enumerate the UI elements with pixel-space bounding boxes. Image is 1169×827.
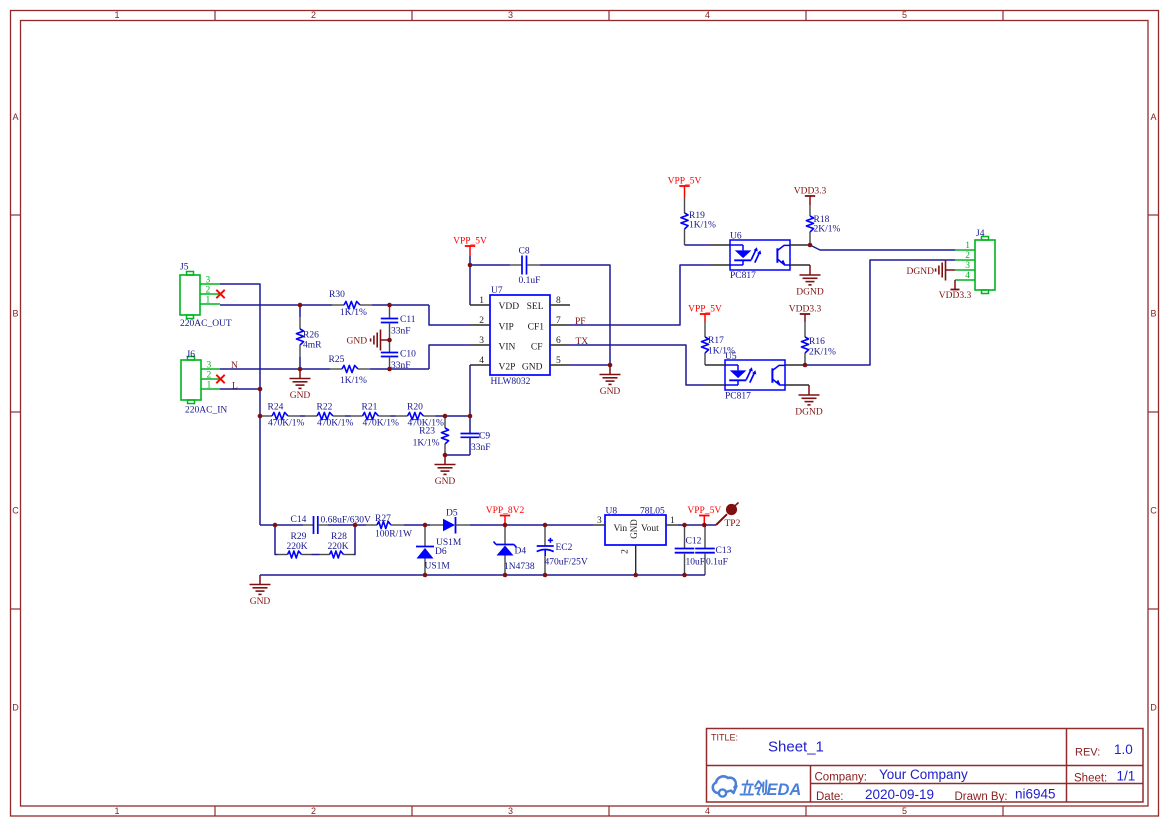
svg-text:EDA: EDA	[767, 781, 802, 799]
svg-text:VDD3.3: VDD3.3	[794, 187, 827, 197]
svg-text:1K/1%: 1K/1%	[340, 376, 367, 386]
svg-text:4: 4	[705, 10, 710, 20]
svg-text:1: 1	[670, 516, 675, 526]
svg-text:R19: R19	[689, 211, 705, 221]
svg-text:1K/1%: 1K/1%	[689, 221, 716, 231]
svg-text:1K/1%: 1K/1%	[340, 308, 367, 318]
svg-text:33nF: 33nF	[471, 443, 491, 453]
svg-text:1/1: 1/1	[1117, 768, 1136, 783]
svg-text:470K/1%: 470K/1%	[317, 419, 354, 429]
svg-text:U8: U8	[606, 507, 618, 517]
svg-text:VDD3.3: VDD3.3	[939, 291, 972, 301]
svg-text:D5: D5	[446, 509, 458, 519]
svg-text:1: 1	[206, 296, 211, 306]
svg-text:GND: GND	[629, 519, 639, 539]
svg-text:R27: R27	[375, 514, 391, 524]
svg-text:VIN: VIN	[499, 343, 516, 353]
svg-text:10uF: 10uF	[686, 558, 706, 568]
svg-text:3: 3	[597, 516, 602, 526]
svg-text:2: 2	[479, 316, 484, 326]
svg-text:1.0: 1.0	[1114, 742, 1133, 757]
svg-text:Company:: Company:	[815, 772, 867, 784]
svg-text:3: 3	[207, 361, 212, 371]
svg-text:J6: J6	[187, 350, 196, 360]
svg-text:PC817: PC817	[730, 271, 756, 281]
svg-text:U7: U7	[491, 286, 503, 296]
svg-text:D4: D4	[515, 547, 527, 557]
svg-text:1: 1	[965, 241, 970, 251]
svg-text:US1M: US1M	[425, 562, 451, 572]
svg-text:220AC_IN: 220AC_IN	[185, 406, 227, 416]
svg-text:VPP_8V2: VPP_8V2	[486, 506, 525, 516]
svg-text:J4: J4	[976, 229, 985, 239]
svg-text:R30: R30	[329, 290, 345, 300]
svg-text:D: D	[1150, 703, 1157, 713]
svg-text:A: A	[1150, 112, 1156, 122]
svg-text:1: 1	[114, 10, 119, 20]
svg-text:2020-09-19: 2020-09-19	[865, 787, 934, 802]
svg-text:C: C	[12, 506, 19, 516]
svg-text:4: 4	[479, 356, 484, 366]
svg-text:Sheet:: Sheet:	[1074, 773, 1107, 785]
svg-text:6: 6	[556, 336, 561, 346]
svg-text:1: 1	[207, 381, 212, 391]
svg-text:HLW8032: HLW8032	[491, 377, 531, 387]
svg-text:Drawn By:: Drawn By:	[955, 791, 1008, 803]
svg-text:5: 5	[902, 806, 907, 816]
svg-text:TITLE:: TITLE:	[711, 733, 738, 743]
svg-text:Date:: Date:	[816, 791, 844, 803]
svg-text:R21: R21	[362, 403, 378, 413]
svg-text:R22: R22	[317, 403, 333, 413]
svg-text:GND: GND	[250, 597, 271, 607]
svg-text:VPP_5V: VPP_5V	[687, 506, 721, 516]
svg-text:33nF: 33nF	[391, 361, 411, 371]
svg-text:2: 2	[206, 286, 211, 296]
svg-text:R28: R28	[331, 532, 347, 542]
svg-text:0.1uF: 0.1uF	[519, 276, 541, 286]
svg-text:3: 3	[508, 10, 513, 20]
svg-text:N: N	[231, 361, 238, 371]
svg-text:Your Company: Your Company	[879, 767, 968, 782]
svg-text:EC2: EC2	[556, 543, 573, 553]
svg-text:GND: GND	[600, 387, 621, 397]
svg-text:PC817: PC817	[725, 391, 751, 401]
svg-text:VPP_5V: VPP_5V	[453, 237, 487, 247]
svg-text:PF: PF	[575, 317, 586, 327]
svg-text:VDD3.3: VDD3.3	[789, 305, 822, 315]
svg-text:DGND: DGND	[795, 408, 823, 418]
svg-text:1: 1	[479, 296, 484, 306]
svg-text:2: 2	[207, 371, 212, 381]
svg-text:3: 3	[965, 261, 970, 271]
svg-text:0.68uF/630V: 0.68uF/630V	[321, 516, 372, 526]
svg-text:220K: 220K	[287, 542, 308, 552]
svg-text:REV:: REV:	[1075, 747, 1100, 759]
svg-text:SEL: SEL	[527, 302, 544, 312]
svg-text:8: 8	[556, 296, 561, 306]
svg-text:CF1: CF1	[528, 323, 545, 333]
svg-text:C11: C11	[400, 315, 416, 325]
svg-text:R29: R29	[291, 532, 307, 542]
svg-text:3: 3	[206, 276, 211, 286]
svg-text:4: 4	[965, 271, 970, 281]
svg-text:Vout: Vout	[641, 524, 659, 534]
svg-text:1: 1	[114, 806, 119, 816]
svg-text:DGND: DGND	[907, 267, 935, 277]
svg-text:C: C	[1150, 506, 1157, 516]
svg-text:ni6945: ni6945	[1015, 786, 1056, 801]
svg-text:R16: R16	[809, 337, 825, 347]
svg-text:R18: R18	[814, 215, 830, 225]
svg-text:B: B	[12, 309, 18, 319]
svg-text:5: 5	[556, 356, 561, 366]
svg-text:GND: GND	[522, 363, 543, 373]
svg-text:GND: GND	[435, 477, 456, 487]
svg-text:U6: U6	[730, 232, 742, 242]
svg-text:VPP_5V: VPP_5V	[668, 177, 702, 187]
svg-text:VDD: VDD	[499, 302, 520, 312]
svg-text:VIP: VIP	[499, 323, 514, 333]
svg-text:3: 3	[479, 336, 484, 346]
svg-text:TX: TX	[576, 337, 589, 347]
svg-text:J5: J5	[180, 263, 189, 273]
svg-text:220AC_OUT: 220AC_OUT	[180, 319, 232, 329]
svg-text:1K/1%: 1K/1%	[708, 347, 735, 357]
svg-text:7: 7	[556, 316, 561, 326]
svg-text:2K/1%: 2K/1%	[809, 348, 836, 358]
svg-text:R23: R23	[419, 427, 435, 437]
svg-text:2: 2	[621, 549, 631, 554]
svg-text:VPP_5V: VPP_5V	[688, 305, 722, 315]
svg-text:TP2: TP2	[725, 519, 741, 529]
svg-text:0.1uF: 0.1uF	[706, 558, 728, 568]
svg-text:220K: 220K	[328, 542, 349, 552]
svg-text:R17: R17	[708, 336, 724, 346]
svg-text:1K/1%: 1K/1%	[413, 439, 440, 449]
svg-text:GND: GND	[290, 391, 311, 401]
svg-text:C10: C10	[400, 350, 416, 360]
svg-text:470K/1%: 470K/1%	[363, 419, 400, 429]
svg-text:2: 2	[965, 251, 970, 261]
svg-text:470uF/25V: 470uF/25V	[545, 558, 588, 568]
svg-text:R25: R25	[329, 355, 345, 365]
svg-text:470K/1%: 470K/1%	[268, 419, 305, 429]
svg-text:2K/1%: 2K/1%	[814, 225, 841, 235]
svg-text:A: A	[12, 112, 18, 122]
svg-text:R24: R24	[268, 403, 284, 413]
svg-text:D: D	[12, 703, 19, 713]
svg-text:GND: GND	[347, 337, 368, 347]
svg-text:100R/1W: 100R/1W	[375, 530, 412, 540]
svg-text:C8: C8	[519, 247, 530, 257]
svg-text:2: 2	[311, 806, 316, 816]
svg-text:R26: R26	[303, 331, 319, 341]
svg-text:Sheet_1: Sheet_1	[768, 738, 824, 755]
svg-text:V2P: V2P	[499, 363, 516, 373]
svg-text:4: 4	[705, 806, 710, 816]
svg-text:C14: C14	[291, 515, 307, 525]
svg-text:L: L	[232, 382, 238, 392]
svg-text:C9: C9	[479, 432, 490, 442]
svg-text:R20: R20	[407, 403, 423, 413]
svg-text:2: 2	[311, 10, 316, 20]
svg-text:D6: D6	[435, 547, 447, 557]
svg-text:78L05: 78L05	[640, 507, 665, 517]
svg-text:CF: CF	[531, 343, 543, 353]
svg-text:5: 5	[902, 10, 907, 20]
svg-text:4mR: 4mR	[303, 341, 322, 351]
svg-text:DGND: DGND	[796, 288, 824, 298]
svg-text:C12: C12	[686, 537, 702, 547]
svg-text:Vin: Vin	[614, 524, 628, 534]
svg-text:1N4738: 1N4738	[504, 562, 535, 572]
svg-text:B: B	[1150, 309, 1156, 319]
svg-text:3: 3	[508, 806, 513, 816]
svg-text:C13: C13	[716, 546, 732, 556]
svg-text:33nF: 33nF	[391, 327, 411, 337]
